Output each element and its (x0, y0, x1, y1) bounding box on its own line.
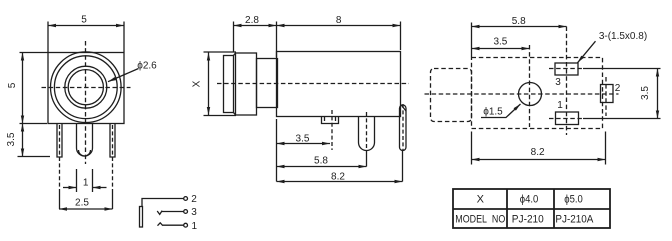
svg-text:2.5: 2.5 (75, 198, 89, 209)
svg-text:1: 1 (557, 100, 563, 111)
svg-text:2: 2 (615, 83, 621, 94)
svg-text:3.5: 3.5 (493, 37, 507, 48)
svg-text:X: X (477, 193, 485, 205)
svg-text:MODEL NO: MODEL NO (455, 213, 505, 225)
svg-text:8.2: 8.2 (531, 147, 545, 158)
svg-text:ϕ5.0: ϕ5.0 (564, 193, 583, 205)
svg-text:1: 1 (83, 177, 89, 188)
svg-text:X: X (192, 80, 203, 87)
svg-text:5.8: 5.8 (314, 156, 328, 167)
svg-text:3-(1.5x0.8): 3-(1.5x0.8) (599, 31, 647, 42)
svg-text:3.5: 3.5 (640, 86, 651, 100)
svg-text:ϕ2.6: ϕ2.6 (137, 61, 157, 72)
svg-text:3: 3 (191, 207, 197, 218)
svg-text:5: 5 (81, 14, 87, 25)
svg-text:PJ-210A: PJ-210A (555, 213, 594, 225)
svg-text:5: 5 (7, 82, 18, 88)
svg-text:ϕ1.5: ϕ1.5 (483, 107, 503, 118)
svg-text:2.8: 2.8 (245, 15, 259, 26)
svg-text:8.2: 8.2 (331, 171, 345, 182)
svg-text:PJ-210: PJ-210 (512, 213, 544, 225)
svg-text:1: 1 (192, 221, 198, 232)
svg-text:2: 2 (191, 194, 197, 205)
svg-text:3: 3 (555, 77, 561, 88)
svg-text:8: 8 (336, 15, 342, 26)
svg-text:5.8: 5.8 (512, 16, 526, 27)
svg-text:ϕ4.0: ϕ4.0 (520, 193, 539, 205)
svg-text:3.5: 3.5 (6, 132, 17, 146)
svg-text:3.5: 3.5 (296, 133, 310, 144)
